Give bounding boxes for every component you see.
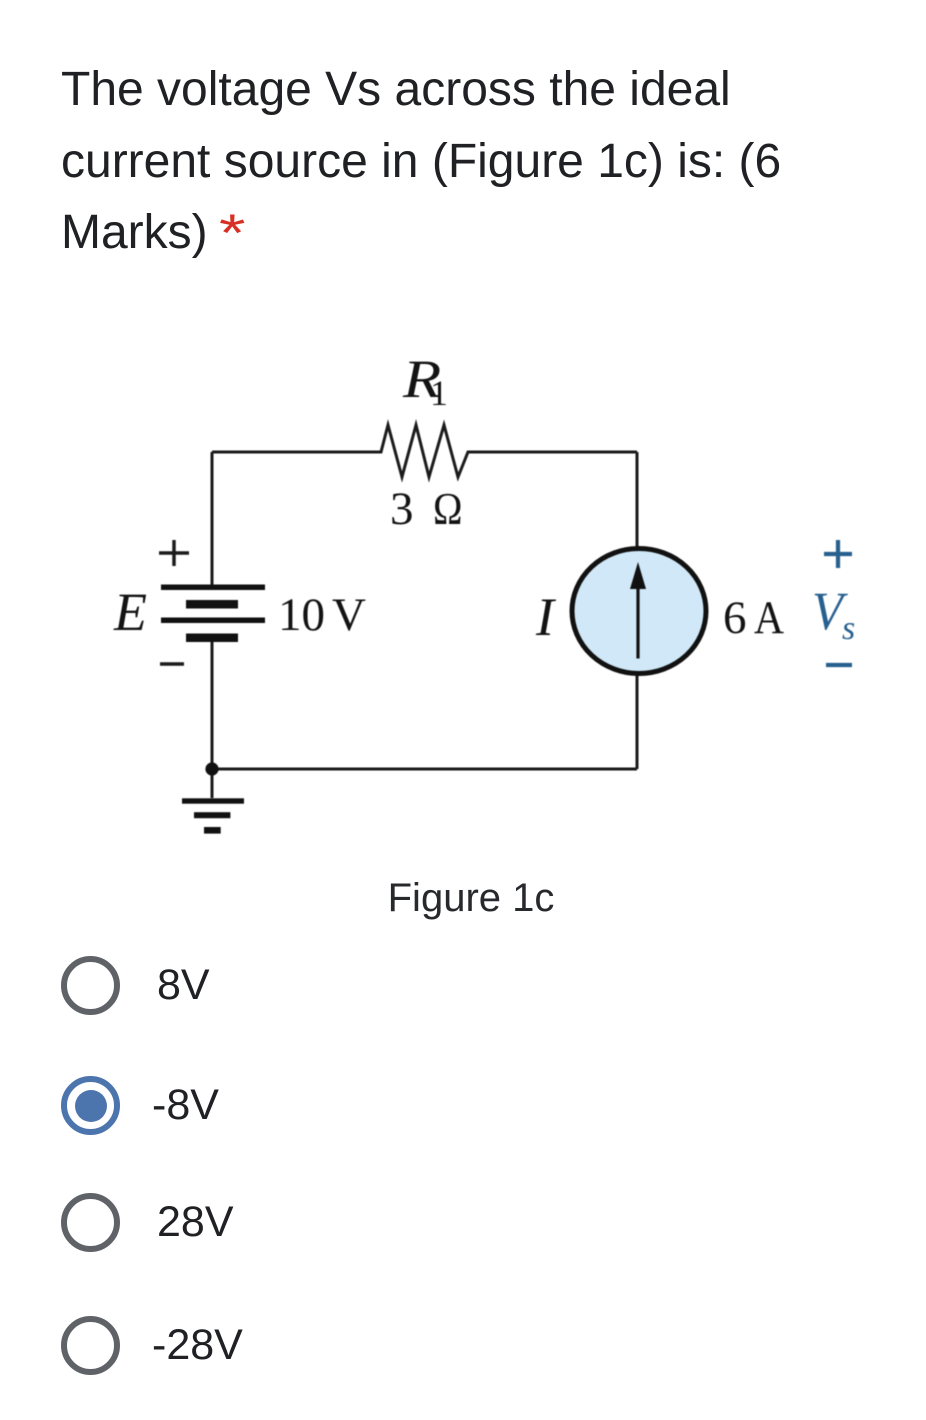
svg-text:A: A: [754, 592, 784, 644]
svg-text:6: 6: [723, 592, 747, 644]
svg-text:E: E: [113, 582, 147, 642]
svg-text:3: 3: [390, 483, 414, 535]
svg-text:10: 10: [278, 589, 325, 641]
svg-text:I: I: [535, 587, 557, 647]
svg-text:V: V: [332, 589, 366, 641]
svg-text:s: s: [842, 610, 855, 647]
svg-text:1: 1: [430, 373, 448, 413]
svg-text:Ω: Ω: [433, 483, 463, 534]
